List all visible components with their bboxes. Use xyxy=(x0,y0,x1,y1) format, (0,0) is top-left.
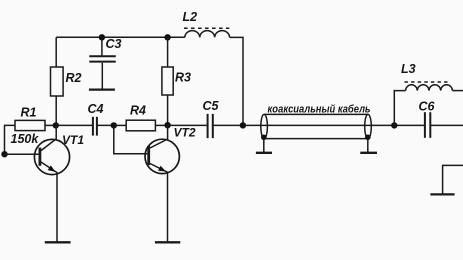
svg-text:C4: C4 xyxy=(88,102,104,116)
svg-text:VT2: VT2 xyxy=(174,126,196,140)
svg-text:L3: L3 xyxy=(401,62,416,76)
capacitor C6 xyxy=(425,112,430,138)
svg-text:C5: C5 xyxy=(203,99,220,113)
svg-text:R1: R1 xyxy=(21,106,37,120)
node R1 base corner xyxy=(1,151,7,157)
node cable input junction xyxy=(240,122,246,128)
ground bottom right xyxy=(430,193,454,195)
wire R2 bottom to collector node xyxy=(55,96,57,125)
svg-text:L2: L2 xyxy=(183,10,198,24)
wire center conductor through cable xyxy=(243,124,394,126)
node C3 top junction xyxy=(99,34,105,40)
wire shield left down xyxy=(263,138,265,152)
svg-text:C6: C6 xyxy=(419,100,436,114)
ground under C3 xyxy=(89,88,115,90)
resistor R3 xyxy=(162,37,173,125)
svg-text:R2: R2 xyxy=(66,71,82,85)
inductor L3 xyxy=(394,82,463,125)
transistor VT2 xyxy=(145,125,179,242)
svg-text:R3: R3 xyxy=(175,71,191,85)
capacitor C5 xyxy=(208,114,213,138)
resistor R4 xyxy=(114,120,168,131)
coaxial cable body xyxy=(261,114,372,138)
wire base node down to VT2 base xyxy=(114,125,148,153)
svg-text:150k: 150k xyxy=(11,132,40,146)
transistor VT1 xyxy=(5,125,70,242)
capacitor C3 xyxy=(89,37,116,88)
inductor L2 xyxy=(184,28,230,37)
node R3 top junction xyxy=(164,34,170,40)
node VT2 base junction xyxy=(111,122,117,128)
wire C4 to base node xyxy=(97,124,114,126)
ground under VT2 emitter xyxy=(155,241,180,243)
wire collector node to C4 xyxy=(56,124,93,126)
node cable shield right xyxy=(365,135,371,141)
wire top supply rail xyxy=(56,36,185,38)
wire shield right down xyxy=(367,138,369,152)
wire right edge to bottom-right ground xyxy=(443,165,463,194)
svg-text:VT1: VT1 xyxy=(62,133,84,147)
resistor R2 xyxy=(51,67,64,96)
svg-text:R4: R4 xyxy=(130,104,146,118)
svg-text:C3: C3 xyxy=(106,37,122,51)
wire top-left corner down to R2 xyxy=(55,37,57,67)
wire C6 to right edge xyxy=(430,124,463,126)
capacitor C4 xyxy=(93,117,97,136)
node VT2 collector junction xyxy=(164,122,170,128)
svg-text:коаксиальный кабель: коаксиальный кабель xyxy=(268,104,371,116)
wire C5 to cable node xyxy=(213,124,243,126)
wire L2 right end down to main line xyxy=(230,37,243,125)
ground under VT1 emitter xyxy=(45,241,71,243)
node L3 junction xyxy=(391,122,397,128)
ground shield left xyxy=(256,152,272,154)
resistor R1 xyxy=(5,120,56,154)
node VT1 collector junction xyxy=(53,122,59,128)
wire VT2 collector to C5 xyxy=(168,124,208,126)
wire L3 node to C6 xyxy=(394,124,425,126)
node cable shield left xyxy=(261,135,267,141)
ground shield right xyxy=(360,152,377,154)
